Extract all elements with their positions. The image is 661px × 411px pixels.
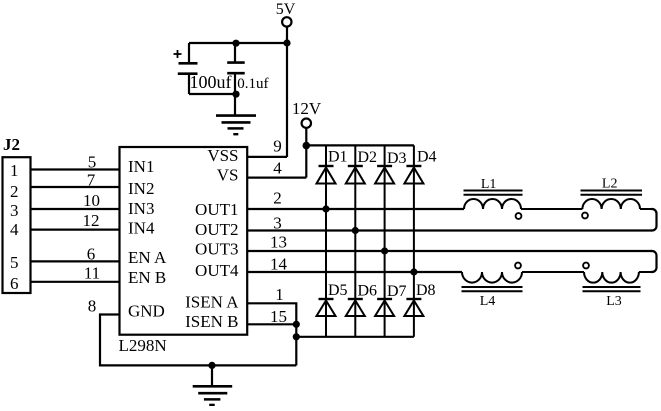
- svg-text:D8: D8: [416, 282, 436, 299]
- svg-text:2: 2: [273, 189, 282, 208]
- svg-text:7: 7: [87, 171, 96, 190]
- svg-text:8: 8: [88, 297, 97, 316]
- svg-text:D6: D6: [358, 283, 378, 300]
- svg-text:5: 5: [10, 253, 19, 272]
- svg-text:4: 4: [273, 159, 282, 178]
- svg-text:13: 13: [270, 233, 287, 252]
- svg-text:IN1: IN1: [128, 157, 154, 176]
- svg-text:VS: VS: [217, 166, 239, 185]
- svg-text:5: 5: [88, 153, 97, 172]
- svg-text:15: 15: [270, 307, 287, 326]
- svg-text:6: 6: [87, 245, 96, 264]
- svg-text:EN A: EN A: [128, 248, 167, 267]
- svg-text:ISEN B: ISEN B: [185, 312, 238, 331]
- svg-text:VSS: VSS: [207, 146, 238, 165]
- svg-text:0.1uf: 0.1uf: [237, 76, 268, 92]
- svg-text:D7: D7: [387, 283, 407, 300]
- svg-text:L2: L2: [602, 177, 618, 192]
- svg-text:D2: D2: [358, 149, 378, 166]
- svg-text:11: 11: [84, 264, 100, 283]
- svg-text:J2: J2: [3, 135, 20, 154]
- svg-text:ISEN A: ISEN A: [185, 293, 239, 312]
- svg-text:D4: D4: [417, 149, 437, 166]
- svg-text:100uf: 100uf: [190, 72, 232, 92]
- svg-text:1: 1: [10, 161, 19, 180]
- svg-text:6: 6: [10, 274, 19, 293]
- svg-text:L3: L3: [606, 294, 622, 309]
- svg-text:3: 3: [273, 214, 282, 233]
- svg-text:OUT3: OUT3: [195, 240, 238, 259]
- svg-text:L298N: L298N: [119, 336, 167, 355]
- svg-text:L4: L4: [480, 294, 496, 309]
- svg-text:D3: D3: [387, 150, 407, 167]
- svg-text:GND: GND: [128, 302, 165, 321]
- svg-text:D5: D5: [328, 282, 348, 299]
- svg-text:IN4: IN4: [128, 219, 155, 238]
- svg-text:3: 3: [10, 201, 19, 220]
- svg-text:2: 2: [10, 182, 19, 201]
- svg-text:9: 9: [273, 137, 282, 156]
- svg-text:OUT1: OUT1: [195, 200, 238, 219]
- svg-text:EN B: EN B: [128, 268, 166, 287]
- svg-text:L1: L1: [481, 177, 497, 192]
- svg-text:OUT4: OUT4: [195, 261, 239, 280]
- svg-text:12: 12: [83, 211, 100, 230]
- svg-text:1: 1: [275, 285, 284, 304]
- svg-text:IN2: IN2: [128, 179, 154, 198]
- svg-text:IN3: IN3: [128, 199, 154, 218]
- svg-text:12V: 12V: [292, 99, 322, 118]
- svg-text:5V: 5V: [276, 1, 296, 18]
- svg-text:4: 4: [10, 220, 19, 239]
- svg-text:14: 14: [270, 255, 288, 274]
- svg-text:D1: D1: [328, 149, 348, 166]
- svg-text:OUT2: OUT2: [195, 220, 238, 239]
- svg-text:10: 10: [83, 191, 100, 210]
